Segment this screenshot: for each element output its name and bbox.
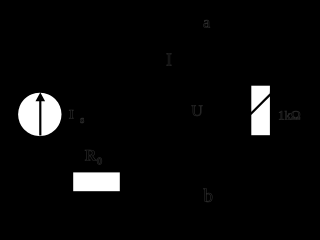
current arrow I (on top rail) xyxy=(176,26,185,34)
resistor R0 xyxy=(73,172,120,191)
label Is xyxy=(69,106,85,126)
svg-text:1kΩ: 1kΩ xyxy=(278,107,301,122)
node b xyxy=(205,180,209,184)
wire: right vertical upper (node a to RL top) xyxy=(260,30,262,86)
wire: top rail xyxy=(40,29,261,31)
rheostat RL (load) xyxy=(246,86,275,136)
svg-text:R: R xyxy=(85,148,97,165)
wire: top-left vertical from current source to top rail xyxy=(39,30,41,93)
svg-text:0: 0 xyxy=(97,156,103,168)
svg-text:I: I xyxy=(69,106,74,121)
svg-text:I: I xyxy=(166,50,172,70)
wire: bottom rail left (R0 to source) xyxy=(40,181,73,183)
svg-text:s: s xyxy=(80,115,84,126)
wire: bottom-left vertical up to current source xyxy=(39,136,41,182)
svg-text:a: a xyxy=(203,15,210,32)
label R0 xyxy=(85,148,103,168)
node a xyxy=(205,28,209,32)
current source Is (circle with upward arrow) xyxy=(18,92,61,136)
wire: bottom rail right (RL to node b to R0) xyxy=(120,181,261,183)
svg-text:U: U xyxy=(191,103,203,120)
svg-text:b: b xyxy=(204,186,214,207)
wire: right vertical lower (RL bottom to bottom rail) xyxy=(260,135,262,182)
